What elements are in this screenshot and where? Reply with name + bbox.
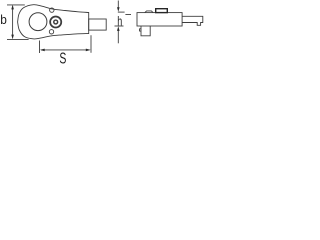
side view: shank	[182, 16, 203, 25]
pin circle bottom	[49, 30, 53, 34]
side view: square drive	[141, 26, 150, 36]
S dimension line	[41, 49, 90, 51]
S dimension: extension line right	[90, 35, 92, 53]
shank rectangle (top view)	[89, 19, 107, 30]
svg-text:h: h	[117, 13, 122, 28]
svg-text:b: b	[0, 12, 7, 27]
h arrow down (above)	[117, 7, 120, 12]
S arrow left	[40, 49, 45, 52]
h dimension: arrow line above	[117, 1, 119, 9]
h dimension: extension tick right	[125, 14, 131, 16]
h dimension: extension line bottom	[115, 25, 124, 27]
b arrow up	[11, 5, 14, 10]
S dimension: extension line left	[39, 41, 41, 54]
h dimension: extension line top	[118, 11, 125, 13]
side view: lever bump	[145, 11, 153, 13]
side view: main bar	[137, 13, 182, 26]
h dimension: arrow line below	[117, 31, 119, 44]
S arrow right	[86, 49, 91, 52]
quick-release bullseye outer	[50, 16, 61, 27]
side view: lever knob	[156, 9, 168, 13]
b arrow down	[11, 35, 14, 40]
drive circle (top view)	[29, 13, 47, 31]
b dimension: extension line top	[7, 4, 25, 6]
pin circle top	[50, 8, 54, 12]
side view: detent ball on drive	[140, 29, 142, 32]
h arrow up (below)	[117, 26, 120, 31]
svg-text:S: S	[59, 50, 66, 67]
ratchet head outline (top view)	[18, 5, 89, 39]
quick-release bullseye inner	[54, 20, 58, 24]
b dimension line	[12, 7, 14, 38]
b dimension: extension line bottom	[7, 38, 29, 40]
